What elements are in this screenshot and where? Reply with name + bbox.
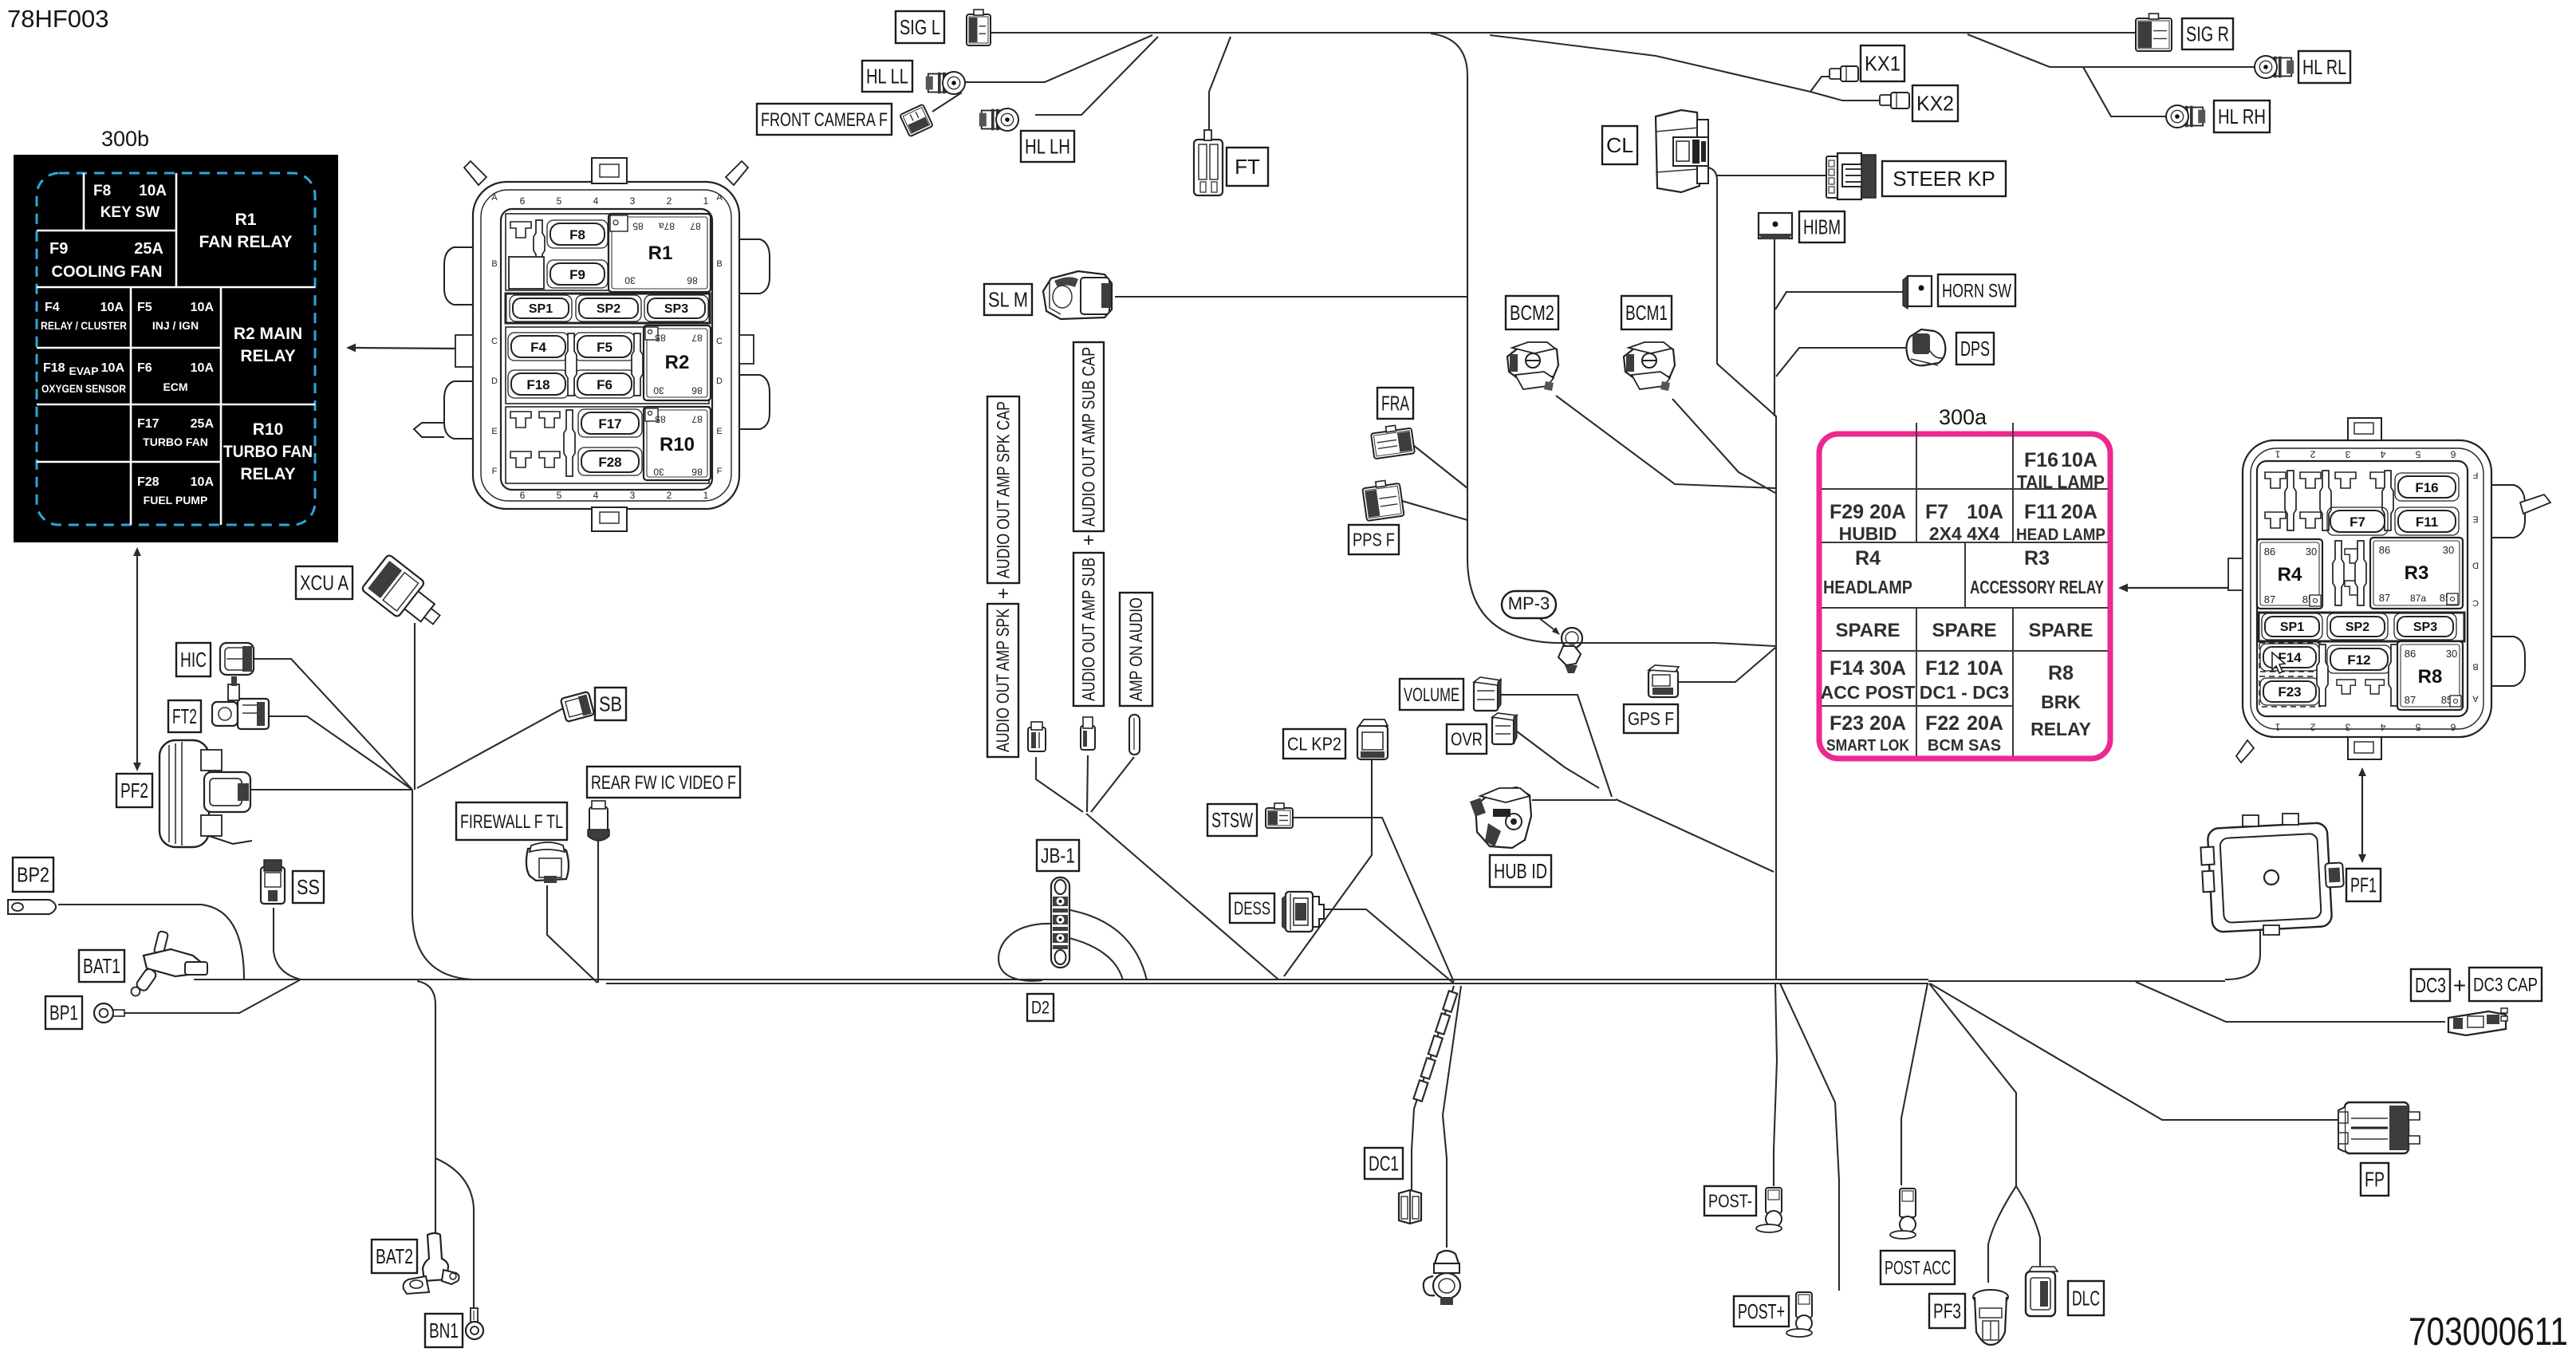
svg-text:FIREWALL F TL: FIREWALL F TL [460, 811, 563, 833]
spare fuse row SP1 SP2 SP3 box F [506, 294, 710, 323]
fuse box F pin numbers bottom [520, 490, 709, 501]
svg-text:B: B [2472, 661, 2478, 671]
300a cell R4 HEADLAMP [1823, 547, 1912, 597]
connector HIBM [1759, 213, 1792, 239]
svg-text:SPARE: SPARE [1932, 620, 1997, 641]
label AMP ON AUDIO [1120, 593, 1152, 706]
svg-text:B: B [716, 259, 722, 269]
label PF1 [2346, 869, 2381, 901]
wire fork to HL RH [2083, 67, 2166, 116]
svg-text:AUDIO OUT AMP SPK CAP: AUDIO OUT AMP SPK CAP [994, 401, 1014, 578]
svg-text:3: 3 [630, 195, 636, 207]
svg-text:85: 85 [655, 333, 666, 344]
svg-text:HL LL: HL LL [866, 65, 908, 89]
connector FT2 [212, 676, 269, 729]
svg-text:CL KP2: CL KP2 [1287, 734, 1341, 755]
svg-text:F8: F8 [93, 183, 111, 199]
wire BP1 line [121, 980, 301, 1013]
wire AMP ON drop [1091, 757, 1134, 812]
wire branch to KX connectors [1490, 35, 1810, 92]
connector PF2 [160, 740, 252, 847]
connector BP1 ring [94, 1003, 124, 1023]
svg-text:86: 86 [2405, 648, 2416, 660]
label POST ACC [1881, 1251, 1955, 1284]
fuse F23 slot [2259, 676, 2320, 707]
connector HORN SW [1903, 276, 1932, 309]
svg-text:F28: F28 [598, 455, 621, 470]
connector GPS F [1648, 665, 1679, 697]
double arrow fuse box R to PF1 [2358, 767, 2366, 863]
svg-text:C: C [716, 337, 723, 346]
fuse F8 slot [547, 220, 608, 248]
300b cell F17 TURBO FAN [137, 417, 214, 448]
svg-text:87: 87 [691, 414, 703, 425]
300a cell F29 HUBID [1830, 501, 1906, 544]
wire fork to HL RL [1967, 34, 2255, 67]
wire top harness line SIG L to SIG R [991, 32, 2136, 34]
svg-text:R10: R10 [660, 434, 695, 455]
label HL LH [1021, 131, 1074, 162]
svg-text:FT: FT [1235, 155, 1260, 179]
label DC3 [2411, 969, 2450, 1001]
300a cell F14 ACC POST [1821, 657, 1916, 703]
svg-text:10A: 10A [191, 475, 215, 489]
connector STSW [1266, 803, 1293, 828]
svg-text:SP1: SP1 [529, 302, 553, 316]
svg-text:A: A [716, 193, 723, 203]
label DC3 CAP [2469, 968, 2542, 1001]
300a cell R3 ACCESSORY RELAY [1970, 547, 2104, 597]
svg-text:F7: F7 [1925, 501, 1948, 523]
svg-text:SP2: SP2 [597, 302, 620, 316]
svg-text:POST-: POST- [1708, 1191, 1752, 1212]
fuse box F front drawing [414, 158, 770, 531]
wire BAT2 drop [417, 981, 435, 1233]
wire CL KP2 drop [1284, 759, 1372, 976]
arrow from fuse box F to 300b panel [346, 344, 458, 353]
svg-text:ECM: ECM [163, 380, 187, 393]
300a spare cells [1836, 620, 2093, 641]
wire PF2 junction drop to trunk [412, 790, 472, 980]
wire conduit line to DC1 [1412, 986, 1454, 1190]
fuse F11 slot [2395, 507, 2459, 535]
connector MP-3 clamp [1558, 628, 1582, 673]
svg-text:F17: F17 [598, 416, 621, 432]
wire KX2 stub [1810, 92, 1880, 101]
svg-text:HUB ID: HUB ID [1494, 859, 1547, 883]
fuse box F pin numbers top [520, 195, 709, 207]
connector FIREWALL F TL [526, 842, 569, 883]
svg-text:R2 MAIN: R2 MAIN [234, 325, 302, 343]
connector BCM1 [1624, 342, 1675, 391]
svg-text:10A: 10A [191, 301, 215, 314]
svg-text:F17: F17 [137, 417, 160, 431]
wire main trunk right section [1928, 980, 2225, 982]
svg-text:XCU A: XCU A [300, 571, 349, 595]
fuse box R pin numbers bottom [2275, 722, 2456, 733]
label HL RH [2214, 101, 2270, 132]
label HIBM [1799, 211, 1845, 242]
wire branch top to FT [1209, 37, 1231, 135]
relay R3 socket [2370, 538, 2463, 609]
svg-text:R3: R3 [2024, 547, 2050, 570]
svg-text:300b: 300b [101, 127, 149, 151]
svg-text:DPS: DPS [1960, 337, 1990, 361]
300b cell R2 MAIN RELAY [234, 325, 302, 365]
svg-text:10A: 10A [100, 301, 124, 314]
svg-text:HL RH: HL RH [2218, 104, 2266, 128]
svg-text:DC3: DC3 [2415, 973, 2446, 997]
relay R10 socket [644, 407, 711, 480]
svg-text:300a: 300a [1939, 405, 1987, 429]
svg-text:FRONT CAMERA F: FRONT CAMERA F [761, 109, 888, 131]
svg-text:20A: 20A [1869, 501, 1906, 523]
connector FP [2338, 1102, 2420, 1153]
fuse F9 slot [547, 260, 608, 288]
svg-text:FAN RELAY: FAN RELAY [199, 233, 292, 251]
svg-text:R8: R8 [2418, 666, 2443, 688]
svg-text:COOLING FAN: COOLING FAN [52, 263, 163, 281]
wire PF3 DLC drop [1929, 983, 2016, 1186]
wire FRA branch [1413, 445, 1467, 488]
svg-text:86: 86 [691, 467, 703, 478]
arrow from fuse box R to 300a panel [2118, 584, 2243, 593]
svg-text:KX1: KX1 [1865, 52, 1900, 76]
svg-text:F11: F11 [2024, 501, 2058, 523]
svg-text:F18: F18 [43, 361, 65, 375]
label GPS F [1624, 704, 1678, 733]
connector SS [261, 860, 285, 904]
svg-text:5: 5 [2415, 449, 2420, 460]
label FT [1227, 148, 1268, 186]
wire top curve down to mid vertical [1431, 34, 1775, 646]
wire OVR branch [1517, 731, 1599, 788]
svg-text:87: 87 [2379, 592, 2390, 604]
300b double arrow to PF2 [133, 547, 141, 771]
svg-text:5: 5 [557, 490, 562, 501]
svg-text:HIC: HIC [180, 648, 207, 672]
svg-text:F16: F16 [2415, 480, 2438, 495]
svg-text:HORN SW: HORN SW [1942, 280, 2011, 302]
label POST+ [1734, 1296, 1789, 1326]
svg-text:AUDIO OUT AMP SPK: AUDIO OUT AMP SPK [993, 609, 1013, 752]
svg-text:2: 2 [667, 490, 672, 501]
wire hub/volume join to vertical [1616, 799, 1774, 872]
svg-text:D: D [491, 376, 498, 386]
wire JB-1 loop right inner [1054, 935, 1123, 980]
svg-text:CL: CL [1606, 133, 1633, 157]
300b cell F5 INJ/IGN [137, 301, 214, 332]
svg-text:4: 4 [2380, 722, 2385, 733]
connector SL M [1043, 271, 1112, 319]
label BP1 [45, 996, 82, 1029]
label HIC [176, 643, 211, 676]
label BN1 [425, 1314, 463, 1347]
svg-text:R1: R1 [648, 242, 673, 264]
svg-text:KX2: KX2 [1916, 92, 1954, 116]
svg-text:10A: 10A [101, 361, 125, 375]
svg-text:SP2: SP2 [2346, 621, 2369, 634]
fuse box F section C-D plate [506, 327, 709, 404]
connector POST ACC terminal [1890, 1188, 1916, 1239]
svg-text:AUDIO OUT AMP SUB CAP: AUDIO OUT AMP SUB CAP [1079, 347, 1099, 526]
fuse box R pin numbers top [2275, 449, 2456, 460]
label CL KP2 [1283, 729, 1345, 759]
svg-text:85: 85 [632, 221, 644, 232]
wire main trunk double line top [606, 979, 1928, 980]
label HL RL [2298, 51, 2350, 83]
svg-text:SL M: SL M [988, 288, 1028, 312]
300a cell R8 BRK RELAY [2030, 662, 2091, 739]
svg-text:POST+: POST+ [1738, 1299, 1785, 1323]
svg-text:F18: F18 [526, 377, 549, 392]
wire STSW branch [1294, 818, 1454, 982]
svg-text:5: 5 [2415, 722, 2420, 733]
fuse F17 slot [578, 409, 642, 437]
label KX2 [1912, 85, 1958, 121]
svg-text:F4: F4 [45, 301, 60, 314]
svg-text:SIG L: SIG L [900, 15, 940, 39]
svg-text:ACC POST: ACC POST [1821, 682, 1916, 703]
label FRONT CAMERA F [757, 104, 892, 135]
svg-text:R1: R1 [235, 211, 257, 229]
300b grid lines [37, 173, 315, 525]
svg-text:C: C [491, 337, 498, 346]
relay R1 socket [609, 214, 711, 292]
wire DPS line [1776, 348, 1945, 376]
svg-text:30: 30 [2446, 648, 2457, 660]
label STSW [1207, 804, 1257, 836]
svg-text:JB-1: JB-1 [1041, 844, 1075, 868]
svg-text:FP: FP [2365, 1168, 2385, 1192]
label BP2 [13, 857, 53, 892]
svg-text:DESS: DESS [1234, 898, 1270, 919]
label SIG L [896, 11, 944, 43]
wire main trunk double line bottom [606, 983, 1928, 984]
fuse F6 slot [574, 370, 635, 398]
svg-text:6: 6 [520, 195, 526, 207]
svg-text:1: 1 [2275, 449, 2280, 460]
fuse box F terminals near F8 F9 [509, 220, 545, 289]
svg-text:6: 6 [520, 490, 526, 501]
svg-text:87: 87 [2405, 694, 2416, 706]
300a cell F23 SMART LOK [1826, 712, 1909, 755]
svg-text:D: D [716, 376, 723, 386]
svg-text:BCM1: BCM1 [1625, 301, 1668, 325]
wire BN1 branch [435, 1158, 474, 1308]
fuse F5 slot [574, 333, 635, 361]
label BAT1 [79, 950, 124, 982]
connector CL [1656, 110, 1708, 192]
label JB-1 [1037, 840, 1079, 871]
svg-text:RELAY: RELAY [240, 347, 295, 365]
connector DLC [2026, 1267, 2058, 1316]
svg-text:MP-3: MP-3 [1508, 593, 1550, 613]
300a cell F11 HEAD LAMP [2016, 501, 2105, 544]
label D2 [1027, 994, 1054, 1021]
wire REAR FW IC VIDEO F drop [597, 840, 599, 983]
300b cell F18 OXYGEN SENSOR [41, 361, 126, 395]
label FP [2361, 1163, 2389, 1196]
svg-text:OVR: OVR [1451, 729, 1483, 750]
wire BCM2 branch [1556, 396, 1775, 488]
svg-text:BAT2: BAT2 [376, 1244, 413, 1268]
svg-text:PF2: PF2 [120, 779, 148, 802]
connector DC3 [2448, 1008, 2507, 1035]
svg-text:2X4 4X4: 2X4 4X4 [1929, 523, 1999, 544]
svg-text:87a: 87a [659, 221, 675, 232]
svg-text:F: F [2472, 470, 2478, 479]
label PPS F [1349, 525, 1399, 554]
label DLC [2068, 1281, 2104, 1315]
svg-text:86: 86 [691, 385, 703, 396]
fuse F7 slot [2327, 507, 2388, 535]
svg-text:2: 2 [2310, 722, 2315, 733]
svg-text:86: 86 [2264, 546, 2275, 558]
label KX1 [1861, 45, 1904, 81]
fuse F4 slot [508, 333, 569, 361]
svg-text:SPARE: SPARE [1836, 620, 1900, 641]
svg-text:6: 6 [2450, 449, 2456, 460]
svg-text:DC1: DC1 [1369, 1152, 1399, 1176]
svg-text:F5: F5 [137, 301, 152, 314]
connector SB [561, 692, 595, 722]
svg-text:2: 2 [2310, 449, 2315, 460]
fuse pullers section C-D [565, 333, 643, 396]
svg-text:F12: F12 [2347, 652, 2370, 668]
relay R2 socket [644, 325, 711, 400]
wire HIC branch [254, 659, 412, 790]
svg-text:4: 4 [593, 490, 599, 501]
svg-text:D: D [2472, 560, 2479, 570]
svg-text:A: A [2472, 693, 2479, 703]
svg-text:2: 2 [667, 195, 672, 207]
wire FP line [1930, 983, 2340, 1120]
300a cell F7 2X4 4X4 [1925, 501, 2003, 544]
label BCM1 [1621, 296, 1672, 329]
svg-text:E: E [716, 427, 722, 436]
label AUDIO OUT AMP SPK [987, 604, 1018, 757]
svg-text:SB: SB [599, 692, 622, 716]
svg-text:SS: SS [297, 875, 320, 899]
300b cell F4 RELAY/CLUSTER [41, 301, 127, 332]
label HORN SW [1938, 274, 2015, 306]
label FIREWALL F TL [456, 802, 567, 840]
label REAR FW IC VIDEO F [587, 767, 740, 798]
label FT2 [168, 700, 201, 732]
wire FIREWALL F TL drop [547, 885, 597, 983]
svg-text:10A: 10A [2061, 449, 2097, 471]
svg-text:D2: D2 [1031, 998, 1050, 1018]
svg-text:F5: F5 [597, 340, 612, 355]
svg-text:F9: F9 [569, 267, 585, 282]
wire FT2 branch [269, 716, 412, 790]
svg-text:FUEL PUMP: FUEL PUMP [144, 494, 208, 507]
svg-text:87a: 87a [2410, 593, 2426, 604]
connector POST- terminal [1756, 1188, 1782, 1232]
wire front camera branch [932, 93, 962, 112]
fuse box R front drawing [2228, 418, 2550, 763]
svg-text:4: 4 [2380, 449, 2385, 460]
label AUDIO OUT AMP SUB [1073, 553, 1104, 706]
svg-text:BP1: BP1 [49, 1001, 78, 1025]
connector PF1 module [2200, 814, 2343, 935]
relay R4 socket [2257, 539, 2322, 609]
svg-text:+: + [2453, 973, 2466, 998]
label HUB ID [1490, 855, 1551, 887]
fuse box R terminals top section [2265, 471, 2393, 530]
svg-text:HEAD LAMP: HEAD LAMP [2016, 526, 2105, 544]
connector BAT1 terminal [132, 931, 208, 996]
svg-text:F8: F8 [569, 227, 585, 242]
svg-text:STSW: STSW [1211, 808, 1253, 832]
300b cell F9 COOLING FAN [49, 240, 163, 281]
svg-text:R10: R10 [253, 420, 284, 439]
svg-text:POST ACC: POST ACC [1885, 1257, 1951, 1279]
fuse box F section A-B plate [506, 214, 709, 290]
wire PF3 branch [1988, 1186, 2016, 1283]
label PF3 [1929, 1294, 1965, 1328]
svg-text:F6: F6 [597, 377, 612, 392]
svg-text:F4: F4 [530, 340, 546, 355]
svg-text:F: F [492, 467, 498, 476]
wire DLC branch [2016, 1186, 2040, 1267]
svg-text:PF1: PF1 [2350, 873, 2377, 897]
fuse box R terminals bottom section [2317, 644, 2400, 706]
svg-text:BRK: BRK [2041, 692, 2081, 712]
svg-text:SP3: SP3 [2413, 621, 2437, 634]
legend panel 300a [1819, 405, 2110, 759]
svg-text:AUDIO OUT AMP SUB: AUDIO OUT AMP SUB [1079, 558, 1099, 701]
svg-text:RELAY / CLUSTER: RELAY / CLUSTER [41, 319, 127, 332]
connector BN1 ring [466, 1308, 483, 1339]
label CL [1602, 126, 1637, 164]
label BAT2 [372, 1240, 417, 1273]
label VOLUME [1400, 679, 1463, 710]
label SB [595, 688, 626, 720]
connector KX1 [1830, 66, 1858, 81]
svg-text:85: 85 [655, 414, 666, 425]
svg-text:3: 3 [2345, 449, 2350, 460]
wire SB branch [417, 708, 563, 788]
svg-text:F14: F14 [1830, 657, 1864, 680]
wire KX1 stub [1810, 77, 1830, 92]
svg-text:1: 1 [2275, 722, 2280, 733]
svg-text:R4: R4 [2278, 564, 2302, 585]
wire PF2 line [249, 789, 412, 790]
wire SS drop [274, 908, 301, 980]
connector OVR [1492, 713, 1517, 744]
svg-text:SIG R: SIG R [2186, 22, 2229, 46]
300b cell R1 FAN RELAY [199, 211, 292, 251]
connector PF3 [1973, 1290, 2008, 1345]
svg-text:1: 1 [703, 490, 709, 501]
svg-text:DC3 CAP: DC3 CAP [2473, 974, 2538, 995]
300b cell F28 FUEL PUMP [137, 475, 214, 507]
svg-text:86: 86 [2379, 544, 2390, 556]
svg-text:BCM SAS: BCM SAS [1928, 737, 2001, 755]
label HL LL [862, 61, 912, 92]
wire HORN SW line [1775, 292, 1930, 309]
svg-text:87: 87 [2264, 593, 2275, 605]
300b cell F8 KEY SW [93, 183, 167, 221]
wire DESS branch [1320, 909, 1454, 983]
connector CL KP2 [1357, 719, 1388, 759]
wire audio junction to trunk [1086, 814, 1278, 980]
svg-text:F6: F6 [137, 361, 152, 375]
label MP-3 oval [1502, 591, 1560, 635]
wire PPS F branch [1402, 501, 1467, 520]
